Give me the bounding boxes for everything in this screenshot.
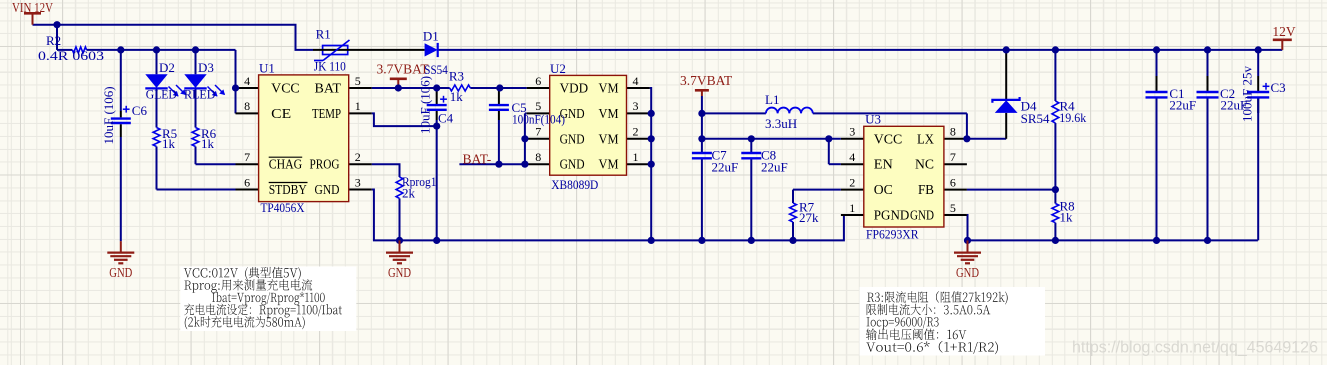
svg-text:GND: GND [560,157,585,172]
svg-text:GND: GND [560,131,585,146]
svg-text:GND: GND [315,182,340,197]
svg-text:JK 110: JK 110 [314,58,346,73]
svg-text:C4: C4 [438,110,454,125]
svg-text:7: 7 [244,150,250,164]
svg-text:VM: VM [599,106,619,121]
svg-text:8: 8 [950,125,956,139]
svg-text:GLED: GLED [146,86,177,101]
svg-text:RLED: RLED [184,86,216,101]
svg-text:PGND: PGND [874,207,910,222]
svg-text:22uF: 22uF [712,160,739,175]
svg-text:2: 2 [355,150,361,164]
svg-text:R2: R2 [46,33,61,48]
svg-text:GND: GND [388,265,411,280]
svg-text:GND: GND [910,207,934,222]
svg-text:NC: NC [915,157,934,172]
svg-text:3.7VBAT: 3.7VBAT [377,62,430,77]
svg-text:3: 3 [849,125,855,139]
svg-text:CHAG: CHAG [269,157,303,172]
svg-text:2k: 2k [402,186,416,201]
svg-text:22uF: 22uF [1169,98,1196,113]
svg-text:8: 8 [535,150,541,164]
svg-text:22uF: 22uF [761,160,788,175]
svg-text:1: 1 [633,150,639,164]
svg-text:1k: 1k [162,136,176,151]
svg-text:OC: OC [874,182,893,197]
svg-text:7: 7 [950,150,956,164]
svg-text:STDBY: STDBY [269,182,307,197]
svg-text:2: 2 [849,175,855,189]
svg-text:1: 1 [849,201,855,215]
svg-text:XB8089D: XB8089D [551,177,598,192]
svg-text:3.7VBAT: 3.7VBAT [680,73,733,88]
svg-text:100uF 25v: 100uF 25v [1240,66,1255,122]
svg-text:TP4056X: TP4056X [261,200,306,215]
svg-text:10uF (106): 10uF (106) [418,76,433,134]
svg-text:D1: D1 [423,28,439,43]
svg-text:VIN 12V: VIN 12V [12,0,53,15]
svg-text:U1: U1 [259,61,275,76]
svg-text:R3: R3 [449,69,464,84]
svg-text:LX: LX [917,131,934,146]
svg-text:TEMP: TEMP [312,106,341,121]
svg-text:19.6k: 19.6k [1059,110,1086,125]
svg-text:GND: GND [109,265,132,280]
svg-text:R1: R1 [316,26,331,41]
svg-text:10uF (106): 10uF (106) [101,86,116,144]
svg-text:100nF(104): 100nF(104) [512,113,565,127]
svg-text:3: 3 [355,175,361,189]
svg-text:1k: 1k [450,89,464,104]
svg-text:4: 4 [849,150,855,164]
svg-text:EN: EN [874,157,893,172]
svg-text:https://blog.csdn.net/qq_45649: https://blog.csdn.net/qq_45649126 [1072,338,1318,357]
svg-text:12V: 12V [1272,24,1296,39]
svg-text:SR54: SR54 [1021,111,1050,126]
svg-text:5: 5 [535,99,541,113]
svg-text:SS54: SS54 [424,62,448,77]
svg-text:6: 6 [244,175,250,189]
svg-text:U2: U2 [550,61,566,76]
svg-text:6: 6 [535,74,541,88]
svg-text:7: 7 [535,125,541,139]
svg-text:C6: C6 [132,103,148,118]
svg-text:PROG: PROG [310,157,340,172]
svg-text:5: 5 [355,74,361,88]
svg-text:4: 4 [244,74,250,88]
svg-text:3.3uH: 3.3uH [765,116,797,131]
svg-text:1k: 1k [1060,210,1074,225]
svg-text:VCC: VCC [271,81,300,96]
svg-text:27k: 27k [799,210,819,225]
svg-text:VCC: VCC [874,131,903,146]
svg-text:FP6293XR: FP6293XR [866,227,919,242]
svg-text:GND: GND [956,265,979,280]
svg-text:1k: 1k [201,136,215,151]
svg-text:VDD: VDD [560,81,589,96]
svg-text:L1: L1 [765,92,779,107]
svg-text:VM: VM [599,131,619,146]
svg-text:0.4R 0603: 0.4R 0603 [38,49,104,63]
svg-text:FB: FB [918,182,934,197]
svg-text:U3: U3 [865,112,881,127]
svg-text:8: 8 [244,99,250,113]
svg-text:3: 3 [633,99,639,113]
svg-text:C3: C3 [1271,80,1286,95]
svg-text:BAT-: BAT- [463,151,492,166]
svg-text:4: 4 [633,74,639,88]
svg-text:1: 1 [355,99,361,113]
svg-text:D3: D3 [198,60,214,75]
svg-text:6: 6 [950,175,956,189]
svg-text:5: 5 [950,201,956,215]
svg-text:VM: VM [599,157,619,172]
svg-text:VM: VM [599,81,619,96]
svg-text:BAT: BAT [315,81,342,96]
svg-text:D2: D2 [159,60,175,75]
svg-text:2: 2 [633,125,639,139]
svg-text:CE: CE [271,106,291,121]
